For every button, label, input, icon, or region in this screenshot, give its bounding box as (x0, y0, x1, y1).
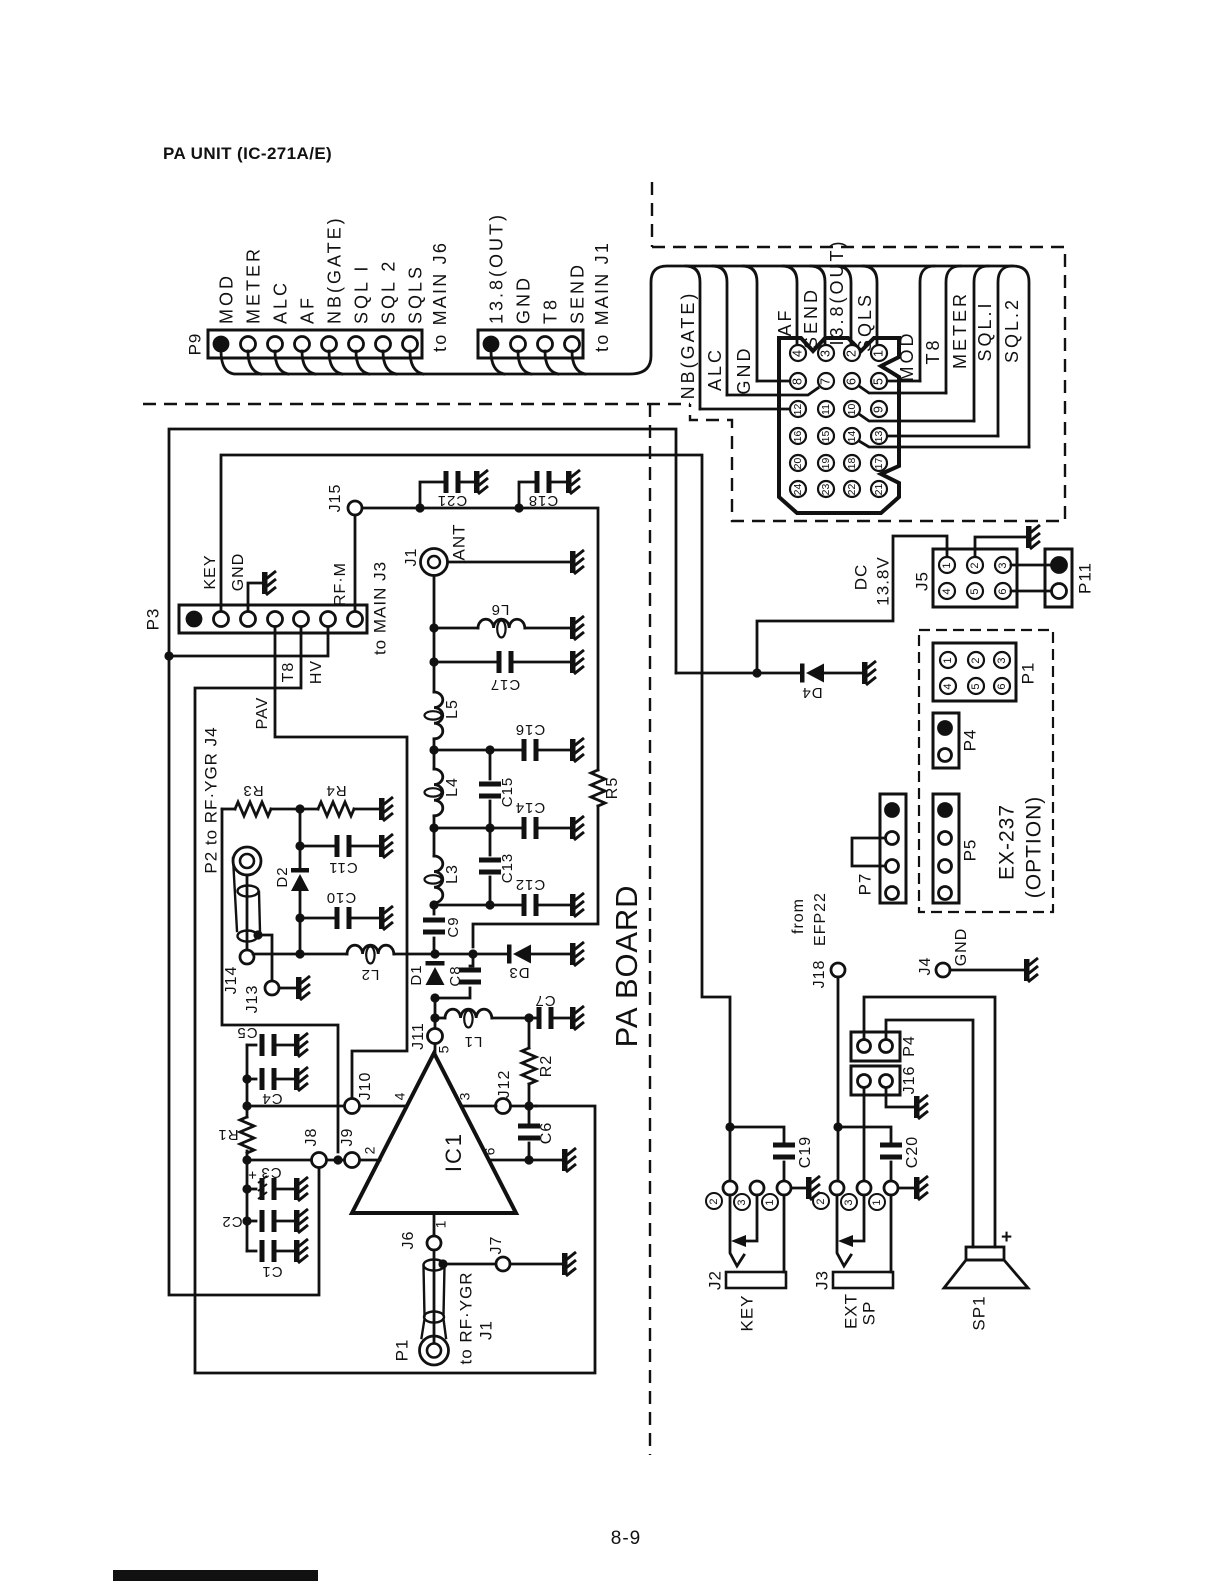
wire ALC to pin 7 (727, 388, 818, 395)
resistor R1 (240, 1117, 254, 1153)
ground J5 pin2 (1026, 525, 1040, 549)
svg-text:C8: C8 (447, 965, 464, 986)
24-pin connector pin 9 (871, 401, 887, 417)
capacitor C7 (529, 1017, 536, 1020)
svg-text:to MAIN J3: to MAIN J3 (370, 561, 389, 655)
wire J15 bus (362, 508, 598, 770)
connector P1 coax (433, 1250, 436, 1343)
svg-text:4: 4 (942, 683, 954, 689)
svg-text:C16: C16 (515, 721, 546, 738)
resistor R3 (222, 808, 235, 811)
svg-text:C21: C21 (437, 492, 468, 509)
connector P7 (880, 794, 906, 903)
P9 pin 1 (214, 337, 228, 351)
svg-text:P7: P7 (855, 873, 874, 896)
P9 pin 7 (376, 337, 391, 352)
wire PAV net (275, 627, 407, 1098)
wire L2 to D1 node (394, 953, 435, 956)
dashed divider vertical (649, 404, 651, 1455)
dashed box EX-237 (919, 630, 1053, 912)
svg-text:NB(GATE): NB(GATE) (678, 291, 698, 400)
jack J12 (496, 1099, 511, 1114)
jack J14 (246, 875, 249, 950)
svg-text:P3: P3 (143, 608, 162, 631)
speaker SP1 (966, 1247, 1004, 1260)
svg-text:MOD: MOD (216, 273, 236, 324)
J2 pin numbers (706, 1193, 722, 1209)
svg-text:2: 2 (969, 562, 981, 568)
wire J16 pin1 down (863, 1089, 866, 1181)
svg-text:J16: J16 (901, 1066, 918, 1095)
node J15 bus C21 (415, 503, 424, 512)
wire J3 ground (898, 1187, 914, 1190)
P3 pin 2 (214, 612, 229, 627)
wire J16 pin2 ground (886, 1089, 914, 1107)
svg-text:8-9: 8-9 (611, 1528, 641, 1549)
svg-text:C5: C5 (236, 1024, 257, 1041)
24-pin connector pin 21 (871, 481, 887, 497)
capacitor C18 (519, 482, 534, 508)
svg-text:13: 13 (873, 431, 885, 443)
svg-text:SEND: SEND (801, 287, 821, 349)
svg-text:D3: D3 (508, 964, 529, 981)
wire to J7 (443, 1263, 496, 1266)
svg-text:I3.8(OUT): I3.8(OUT) (827, 238, 847, 345)
svg-text:J5: J5 (912, 571, 931, 591)
svg-text:23: 23 (820, 484, 832, 496)
svg-text:9: 9 (871, 406, 885, 413)
wire arc hanger (974, 266, 988, 421)
jack J2 pins (723, 1181, 737, 1195)
svg-text:1: 1 (764, 1199, 776, 1205)
svg-text:GND: GND (953, 928, 970, 967)
wire R3 left leg (222, 809, 338, 1152)
node P2 shield (253, 930, 262, 939)
wire arc hanger (686, 266, 700, 409)
connector P3 box (179, 605, 367, 633)
svg-text:4: 4 (392, 1092, 408, 1101)
wire T8 to pin 6 (859, 386, 946, 393)
J5 pin 3 (995, 557, 1011, 573)
svg-text:RF·M: RF·M (332, 562, 349, 606)
svg-text:J1: J1 (403, 548, 420, 567)
diode D1 (426, 961, 445, 966)
svg-text:18: 18 (846, 458, 858, 470)
connector P2 body (233, 847, 261, 875)
24-pin connector pin 7 (818, 373, 834, 389)
wire METER to pin 10 (859, 414, 974, 421)
svg-text:C3: C3 (260, 1164, 281, 1181)
ground L6 (570, 616, 584, 640)
capacitor C15 (489, 750, 492, 779)
svg-text:L2: L2 (361, 966, 380, 983)
svg-text:1: 1 (941, 562, 953, 568)
svg-text:12: 12 (792, 404, 804, 416)
dashed boundary horizontal (143, 403, 690, 405)
svg-text:R3: R3 (242, 782, 263, 799)
svg-text:from: from (790, 898, 807, 934)
svg-text:5: 5 (970, 683, 982, 689)
svg-text:J13: J13 (244, 985, 261, 1014)
svg-text:C4: C4 (261, 1090, 282, 1107)
node J7 row (438, 1259, 447, 1268)
wire 13.8V loop (169, 429, 676, 1295)
svg-text:19: 19 (820, 458, 832, 470)
node J8 row (242, 1155, 251, 1164)
svg-text:PA UNIT (IC-271A/E): PA UNIT (IC-271A/E) (163, 144, 332, 163)
svg-text:C18: C18 (528, 492, 559, 509)
svg-text:P4: P4 (901, 1035, 918, 1057)
option P1 pin 4 (940, 678, 956, 694)
svg-text:2: 2 (970, 657, 982, 663)
svg-text:J6: J6 (400, 1231, 417, 1250)
ground D3 (570, 942, 584, 966)
24-pin connector pin 5 (871, 373, 887, 389)
jack J11 (428, 1029, 443, 1044)
connector J5 box (933, 549, 1017, 607)
svg-text:P2 to RF·YGR J4: P2 to RF·YGR J4 (201, 726, 220, 873)
node L6 row (429, 623, 438, 632)
diode D4 (800, 664, 805, 683)
node R3 R4 (295, 804, 304, 813)
svg-text:C10: C10 (326, 889, 357, 906)
svg-text:ALC: ALC (270, 280, 290, 324)
svg-text:C2: C2 (221, 1213, 242, 1230)
node C11 (295, 841, 304, 850)
wire to C8 node (435, 953, 473, 956)
svg-text:6: 6 (997, 588, 1009, 594)
svg-text:1: 1 (871, 1199, 883, 1205)
24-pin connector pin 2 (844, 345, 860, 361)
wire P7 jumper (852, 838, 885, 866)
svg-text:J4: J4 (917, 957, 934, 976)
wire D4 row (676, 672, 800, 675)
P9 pin 2 (241, 337, 256, 352)
node C8 top (468, 949, 477, 958)
svg-text:J1: J1 (476, 1320, 495, 1340)
capacitor C12 (434, 904, 521, 907)
svg-text:KEY: KEY (202, 554, 219, 589)
svg-text:5: 5 (871, 378, 885, 385)
jack J1 ANT (421, 549, 448, 576)
scan artifact bar (113, 1570, 318, 1581)
svg-text:2: 2 (362, 1146, 378, 1155)
ground J1 (570, 550, 584, 574)
svg-text:MOD: MOD (897, 331, 917, 382)
connector P4 option (933, 713, 959, 768)
svg-text:J7: J7 (488, 1236, 505, 1255)
svg-text:HV: HV (308, 660, 325, 684)
capacitor C5 (247, 1044, 256, 1047)
svg-text:20: 20 (792, 458, 804, 470)
wire J8 J9 row (327, 1159, 344, 1162)
wire J18 down (837, 977, 840, 1181)
24-pin connector pin 1 (871, 345, 887, 361)
svg-text:EXT: EXT (841, 1293, 860, 1329)
jack J15 (348, 501, 362, 515)
svg-text:+: + (247, 1166, 257, 1183)
24-pin connector pin 10 (844, 401, 860, 417)
node C2 (242, 1216, 251, 1225)
svg-text:4: 4 (941, 588, 953, 594)
svg-text:6: 6 (844, 378, 858, 385)
svg-text:5: 5 (969, 588, 981, 594)
dashed boundary top right box (651, 182, 653, 247)
svg-text:SQL 2: SQL 2 (378, 259, 398, 324)
svg-text:6: 6 (996, 683, 1008, 689)
svg-text:T8: T8 (540, 297, 560, 324)
svg-text:C9: C9 (445, 916, 462, 937)
svg-text:EFP22: EFP22 (812, 892, 829, 946)
connector P9 box (208, 330, 422, 358)
connector (to MAIN J1) box (478, 330, 583, 358)
svg-text:to RF·YGR: to RF·YGR (456, 1271, 475, 1364)
node C3 (242, 1184, 251, 1193)
wire arc hanger (920, 266, 934, 381)
24-pin connector pin 4 (790, 345, 806, 361)
J5 pin 1 (939, 557, 955, 573)
wire IC1 pin1 (433, 1213, 436, 1236)
svg-text:SQL.I: SQL.I (975, 300, 995, 361)
node C7 R2 (524, 1013, 533, 1022)
diode D3 (473, 953, 507, 956)
node row A R3 column (295, 949, 304, 958)
svg-text:C17: C17 (490, 676, 521, 693)
wire KEY net (221, 455, 730, 1181)
wire RF·M to J15 (354, 515, 357, 611)
capacitor C1 (247, 1250, 256, 1253)
P9 pin 6 (349, 337, 364, 352)
svg-text:P5: P5 (960, 839, 979, 862)
svg-text:J11: J11 (410, 1022, 427, 1050)
svg-text:SP1: SP1 (969, 1295, 988, 1330)
svg-text:C7: C7 (534, 992, 555, 1009)
svg-text:14: 14 (846, 431, 858, 443)
svg-text:21: 21 (873, 484, 885, 496)
svg-text:SQLS: SQLS (405, 264, 425, 324)
svg-text:P4: P4 (960, 729, 979, 752)
node C10 (295, 913, 304, 922)
wire NB(GATE) to pin 12 (700, 408, 789, 411)
aux connector pin 4 (565, 337, 580, 352)
svg-text:R4: R4 (325, 782, 346, 799)
node D1 top (430, 949, 439, 958)
wire J10 to IC1 pin4 (360, 1105, 407, 1108)
svg-text:6: 6 (482, 1147, 498, 1156)
svg-text:3: 3 (843, 1199, 855, 1205)
inductor L6 (434, 627, 478, 630)
svg-text:3: 3 (457, 1092, 473, 1101)
J5 pin 5 (967, 583, 983, 599)
node D1 bottom (430, 993, 439, 1002)
svg-text:7: 7 (818, 378, 832, 385)
svg-text:5: 5 (436, 1045, 452, 1054)
wire arc hanger (811, 266, 825, 345)
connector P11 (1045, 549, 1072, 607)
wire to J10 (247, 1105, 344, 1108)
wire IC1 pin3 to J12 (461, 1105, 496, 1108)
svg-text:EX-237: EX-237 (996, 804, 1019, 880)
svg-text:SQL I: SQL I (351, 264, 371, 324)
P9 pin 4 (295, 337, 310, 352)
jack J8 (312, 1153, 327, 1168)
svg-text:L5: L5 (444, 699, 461, 719)
24-pin connector pin 12 (790, 401, 806, 417)
svg-text:3: 3 (996, 657, 1008, 663)
24-pin connector pin 8 (790, 373, 806, 389)
P3 pin 5 (294, 612, 309, 627)
node C12 row (433, 903, 436, 914)
connector P5 (933, 794, 959, 903)
option P1 pin 5 (968, 678, 984, 694)
J5 pin 2 (967, 557, 983, 573)
svg-text:L1: L1 (464, 1033, 483, 1050)
svg-text:3: 3 (736, 1199, 748, 1205)
svg-text:13.8(OUT): 13.8(OUT) (486, 212, 506, 324)
svg-text:17: 17 (873, 458, 885, 470)
svg-text:J9: J9 (339, 1128, 356, 1147)
ground pin6 (562, 1148, 576, 1172)
svg-text:ANT: ANT (449, 524, 468, 561)
svg-text:D1: D1 (408, 964, 425, 985)
24-pin connector pin 22 (844, 481, 860, 497)
svg-text:2: 2 (815, 1198, 827, 1204)
wire arc hanger (783, 266, 797, 345)
P3 pin 6 (321, 612, 336, 627)
node C4 (242, 1074, 251, 1083)
P3 pin 4 (268, 612, 283, 627)
svg-text:C12: C12 (515, 876, 546, 893)
24-pin connector pin 23 (818, 481, 834, 497)
24-pin connector pin 3 (818, 345, 834, 361)
capacitor C3 (247, 1188, 256, 1191)
node J15 bus C18 (514, 503, 523, 512)
diode D2 (299, 846, 302, 868)
24-pin connector pin 24 (790, 481, 806, 497)
node J18 C20 (833, 1122, 842, 1131)
svg-text:PA BOARD: PA BOARD (609, 885, 644, 1048)
svg-text:J2: J2 (705, 1270, 724, 1290)
node L1 row (430, 1013, 439, 1022)
capacitor C21 (420, 482, 443, 508)
svg-text:J8: J8 (303, 1128, 320, 1147)
svg-text:10: 10 (846, 404, 858, 416)
svg-text:AF: AF (775, 307, 795, 336)
wire row J14 to L2 (253, 953, 347, 956)
wire J12 to C6 node (511, 1105, 536, 1108)
option P1 pin 6 (994, 678, 1010, 694)
svg-text:P9: P9 (185, 333, 204, 356)
wire arc hanger (863, 266, 877, 345)
capacitor C14 (434, 827, 521, 830)
wire HV stub (169, 627, 328, 656)
svg-text:to MAIN J1: to MAIN J1 (592, 241, 612, 352)
J5 pin 6 (995, 583, 1011, 599)
svg-text:D4: D4 (801, 684, 822, 701)
svg-text:J14: J14 (223, 966, 240, 995)
inductor L3 (434, 856, 443, 903)
capacitor C16 (434, 749, 521, 752)
node J8 J9 (333, 1155, 342, 1164)
svg-text:SP: SP (859, 1301, 878, 1326)
svg-text:(OPTION): (OPTION) (1023, 796, 1046, 899)
svg-text:16: 16 (792, 431, 804, 443)
svg-text:METER: METER (950, 291, 970, 369)
P9 pin 3 (268, 337, 283, 352)
wire arc hanger (946, 266, 960, 393)
svg-text:T8: T8 (923, 337, 943, 364)
svg-text:J15: J15 (327, 484, 344, 513)
wire antenna column (433, 576, 436, 692)
P3 pin 1 (187, 612, 201, 626)
wire P4 pin2 to SP1 (886, 1020, 973, 1247)
inductor L1 (435, 1017, 445, 1020)
24-pin connector pin 20 (790, 455, 806, 471)
jack J13 (258, 935, 272, 981)
wire R5 bottom to C8 node (473, 806, 598, 947)
24-pin connector pin 17 (871, 455, 887, 471)
24-pin connector pin 11 (818, 401, 834, 417)
wire C10 node to row A (299, 918, 302, 954)
svg-text:GND: GND (734, 346, 754, 395)
svg-text:SQLS: SQLS (855, 292, 875, 352)
svg-text:J18: J18 (811, 960, 828, 989)
svg-text:R2: R2 (538, 1055, 555, 1077)
svg-text:C6: C6 (538, 1122, 555, 1144)
option P1 pin 3 (994, 652, 1010, 668)
svg-text:3: 3 (997, 562, 1009, 568)
wire J13 ground (279, 987, 296, 990)
24-pin connector pin 13 (871, 428, 887, 444)
svg-text:C19: C19 (797, 1136, 814, 1168)
node C17 row (429, 657, 438, 666)
capacitor C17 (434, 661, 496, 664)
capacitor C19 (730, 1127, 784, 1145)
wire bus from P9 pins (248, 351, 261, 374)
node J10 row (242, 1101, 251, 1110)
op-amp IC1 (352, 1053, 516, 1213)
wire to J11 (434, 998, 437, 1028)
node D4 (752, 668, 761, 677)
svg-text:GND: GND (230, 553, 247, 592)
wire arc hanger (837, 266, 851, 345)
svg-text:24: 24 (792, 484, 804, 496)
ground R4 (379, 797, 393, 821)
ground D4 (862, 661, 876, 685)
capacitor C8 (470, 954, 473, 966)
svg-text:22: 22 (846, 484, 858, 496)
svg-text:AF: AF (297, 295, 317, 324)
option P1 pin 2 (968, 652, 984, 668)
svg-text:1: 1 (942, 657, 954, 663)
resistor R2 (522, 1048, 536, 1084)
connector P1 option (933, 643, 1016, 701)
svg-text:C14: C14 (515, 799, 546, 816)
jack J3 pins (830, 1181, 844, 1195)
svg-text:J10: J10 (357, 1072, 374, 1101)
capacitor C9 (423, 918, 445, 935)
svg-text:D2: D2 (274, 866, 291, 887)
svg-text:SEND: SEND (567, 262, 587, 324)
node C6 bottom (524, 1155, 533, 1164)
svg-text:C20: C20 (904, 1136, 921, 1168)
wire J7 ground (510, 1263, 562, 1266)
svg-text:3: 3 (818, 350, 832, 357)
svg-text:R5: R5 (604, 777, 621, 799)
svg-text:P11: P11 (1075, 562, 1094, 594)
resistor R5 (591, 770, 605, 806)
capacitor C20 (838, 1127, 891, 1145)
